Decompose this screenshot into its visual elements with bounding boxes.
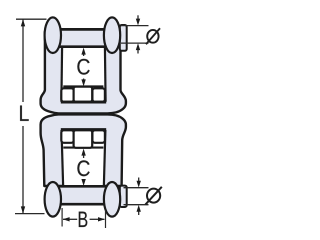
C top label [77,59,89,75]
diameter dim bottom: up arrow [138,211,140,215]
diameter dim bottom: down arrow [138,178,140,182]
top jaw gap (white opening) [61,38,106,102]
swivel seam (joint line) [56,113,111,116]
top clevis pin shaft [57,29,123,46]
diameter dim top: up arrow [137,50,139,54]
L dimension top extension line [16,18,47,20]
diameter dim top: down arrow [137,15,139,19]
C bottom label [77,160,89,176]
C bottom dimension: down arrow [83,179,85,182]
L top arrow [21,19,25,26]
bottom pin end stub [120,186,127,207]
diameter dim bottom: extension lines [124,187,149,189]
diameter symbol top [147,30,158,43]
B dimension line right + right arrow [90,218,105,220]
C bottom dimension: up arrow [83,155,85,158]
swivel nut (bottom, seen in gap) [61,130,74,143]
top left boss (pin eye) [45,17,61,53]
L bottom arrow [21,206,25,213]
bottom clevis pin shaft [57,186,123,204]
diameter dim top: extension lines [121,25,149,27]
L label [20,106,29,121]
B dimension line left + left arrow [63,218,77,220]
crotch line bottom jaw [61,128,106,131]
L dimension bottom extension line [15,213,45,215]
bottom left boss [45,182,61,217]
C top dimension: down arrow [83,79,85,82]
swivel nut barrel edge (bottom) [63,147,103,149]
diameter symbol bottom [147,189,160,203]
crotch line top jaw [61,101,106,104]
bottom right boss [104,182,120,217]
top pin end stub [120,25,127,51]
top right boss [104,17,120,53]
swivel nut barrel edge (top) [63,85,103,87]
swivel top jaw body silhouette [41,32,126,113]
bottom jaw gap (white opening) [61,130,107,190]
C top dimension: up arrow [83,51,85,56]
swivel nut (top, seen in gap) [61,88,74,101]
L dimension line [22,19,24,102]
swivel bottom jaw body silhouette [41,114,126,186]
B label [79,212,88,227]
B dimension extension lines [61,208,63,227]
